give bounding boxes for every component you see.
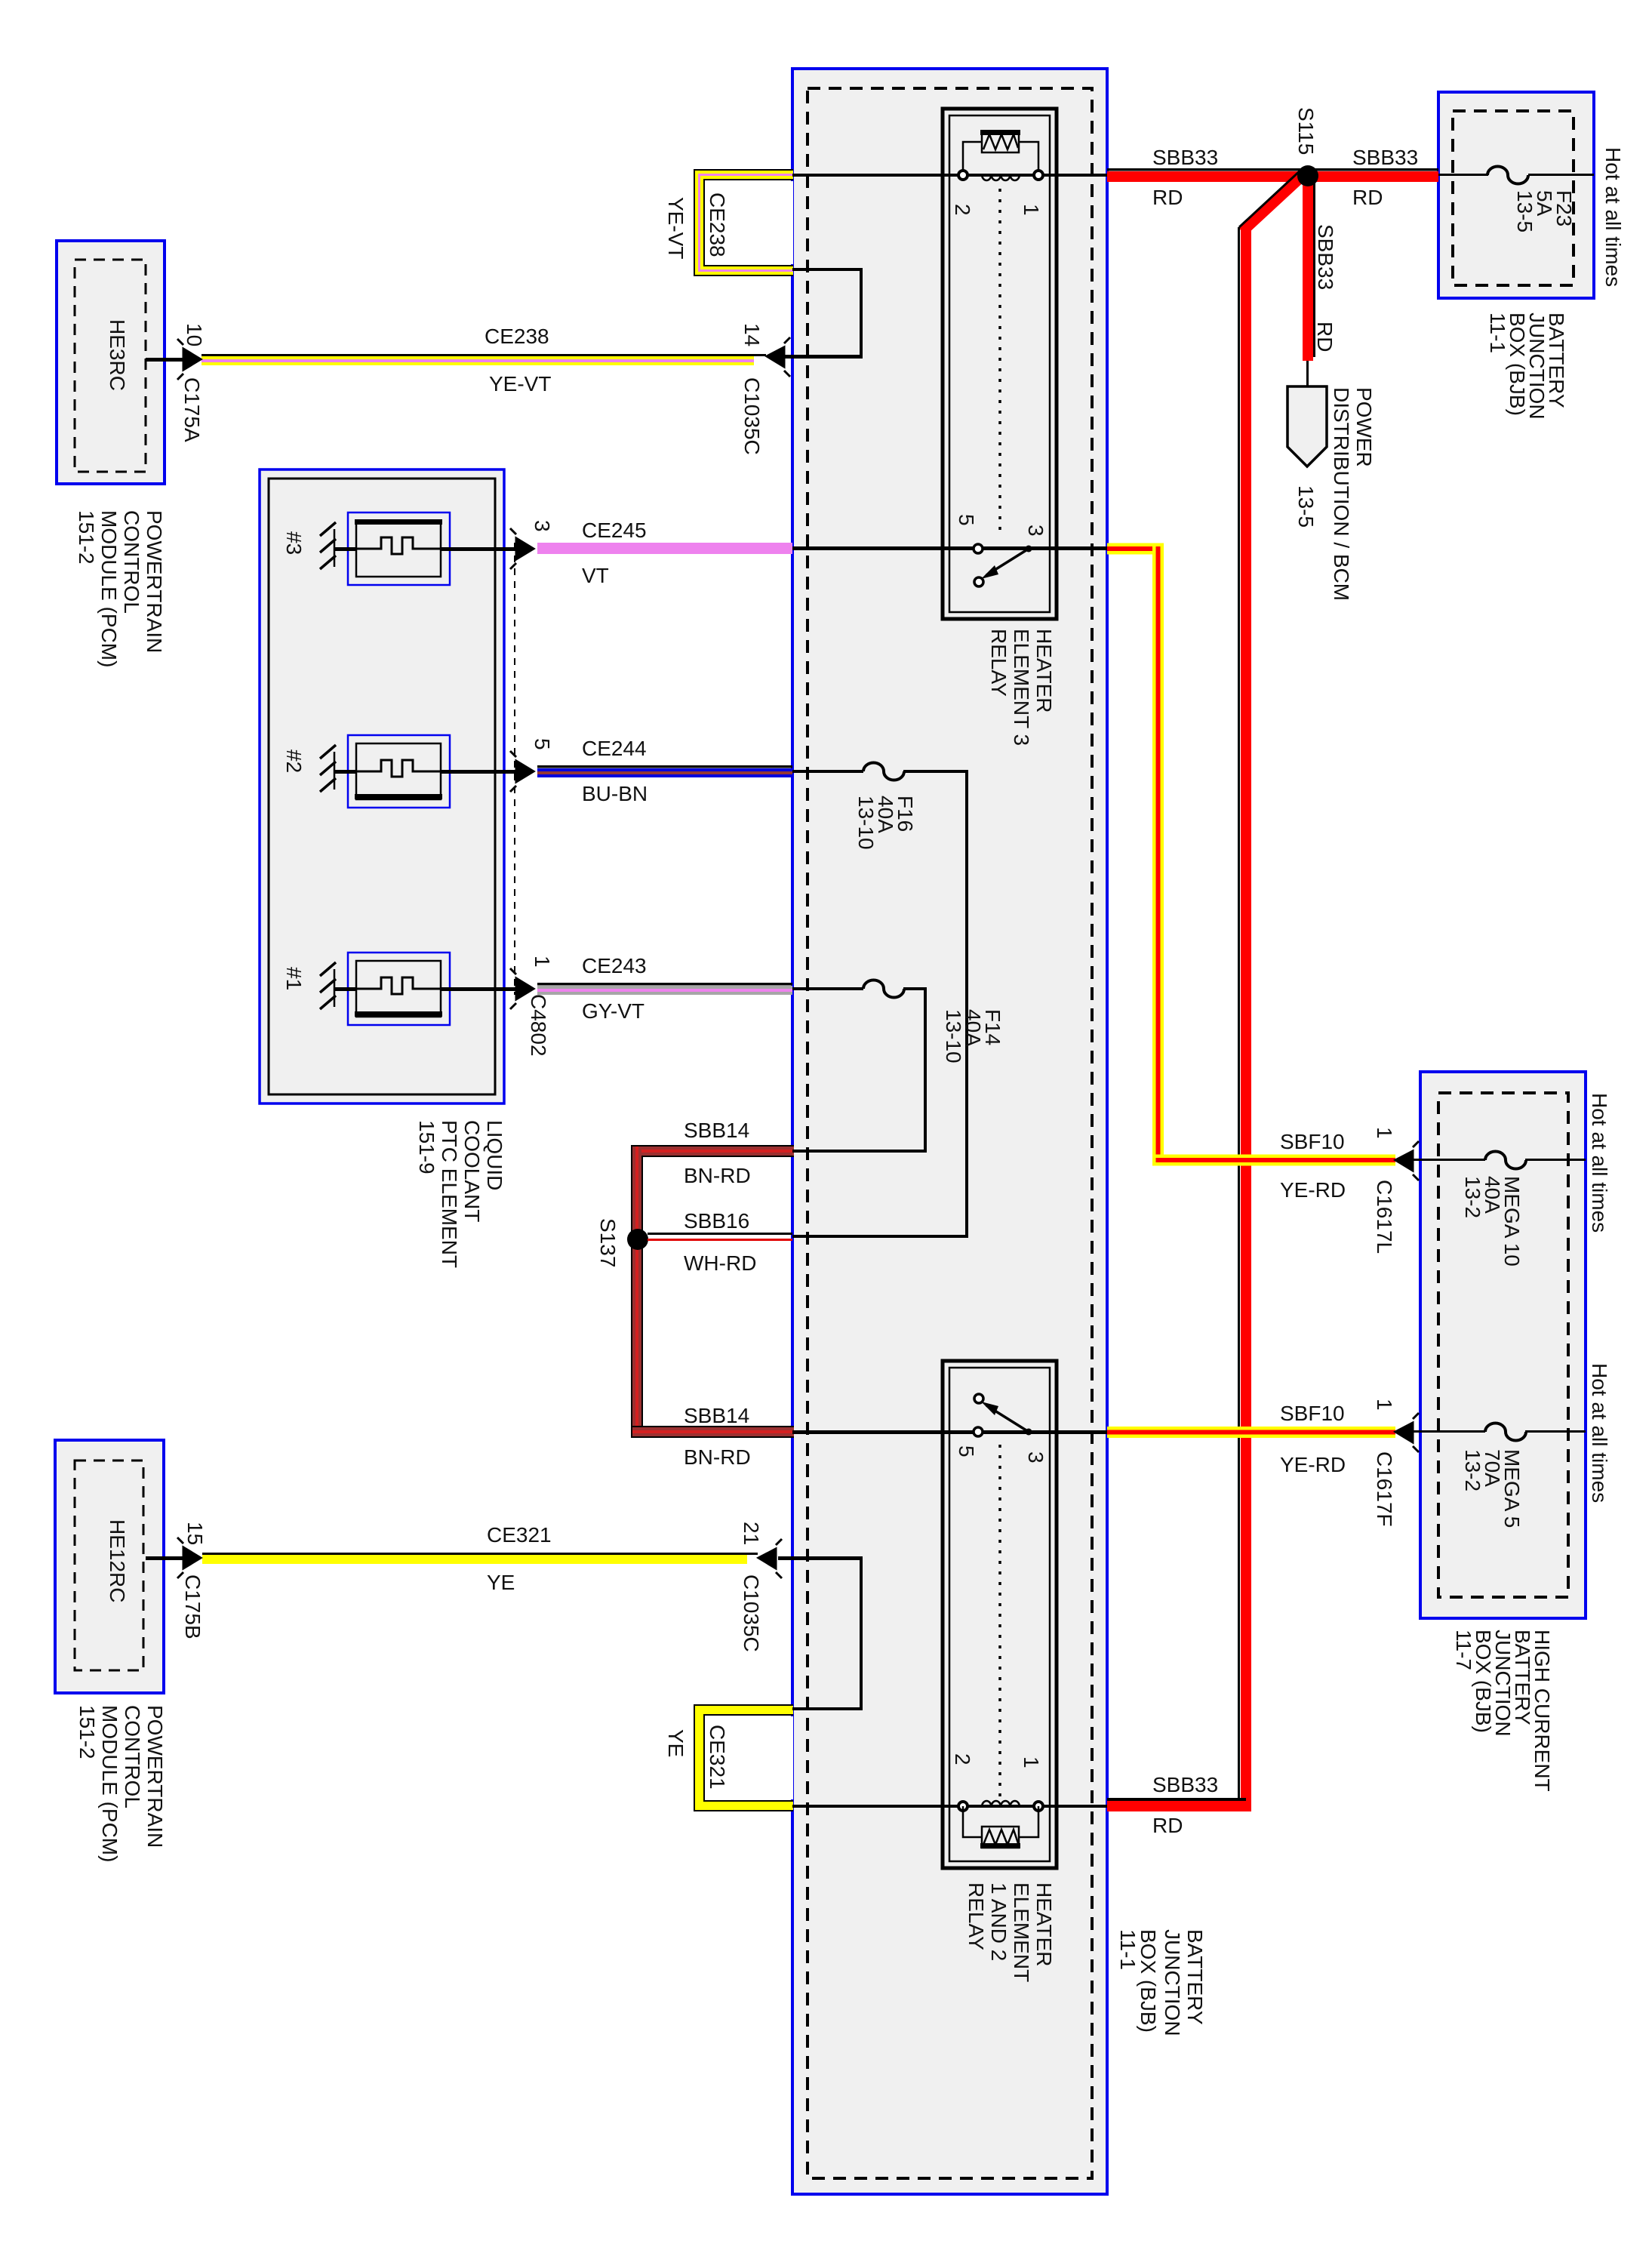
svg-text:1 AND 2: 1 AND 2 <box>987 1882 1011 1961</box>
wire CE238 YE-VT from C175A to C1035C <box>202 354 766 365</box>
svg-text:1: 1 <box>1373 1399 1396 1411</box>
svg-text:RD: RD <box>1152 186 1183 209</box>
connector arrow C1617F pin 1 (left pointing) <box>1395 1413 1419 1452</box>
svg-text:13-2: 13-2 <box>1461 1176 1484 1218</box>
svg-text:11-1: 11-1 <box>1116 1929 1140 1970</box>
fuse F16 40A symbol <box>863 763 904 780</box>
svg-text:CE238: CE238 <box>706 192 729 257</box>
label high current battery junction box BJB 11-7 <box>1452 1630 1554 1792</box>
svg-text:MODULE (PCM): MODULE (PCM) <box>98 1705 122 1862</box>
svg-text:13-5: 13-5 <box>1513 190 1537 232</box>
svg-text:SBB33: SBB33 <box>1352 146 1418 169</box>
svg-text:#3: #3 <box>282 531 306 555</box>
label powertrain control module PCM top <box>75 510 166 667</box>
svg-text:YE-VT: YE-VT <box>664 197 688 259</box>
svg-text:3: 3 <box>1024 1451 1047 1464</box>
svg-text:DISTRIBUTION / BCM: DISTRIBUTION / BCM <box>1330 387 1353 601</box>
wire SBB33 RD from S115 to F23 BJB <box>1308 168 1438 182</box>
wire CE245 VT from element 3 to relay <box>537 543 792 554</box>
svg-text:13-10: 13-10 <box>854 796 878 850</box>
wire SBB33 RD from BJB to S115 <box>1107 168 1308 182</box>
svg-text:PTC ELEMENT: PTC ELEMENT <box>438 1120 461 1268</box>
svg-text:YE: YE <box>487 1571 515 1594</box>
wire SBB33 RD from S115 down to power distribution <box>1303 182 1315 388</box>
label fuse F23 5A 13-5 <box>1513 190 1576 232</box>
battery junction box BJB main outline <box>792 69 1107 2194</box>
power distribution / BCM pentagon symbol <box>1287 386 1327 466</box>
svg-text:CE238: CE238 <box>485 325 549 348</box>
wire SBF10 YE-RD from relay 3 to C1617L <box>1107 543 1395 1166</box>
svg-text:SBF10: SBF10 <box>1280 1130 1345 1153</box>
wire CE238 loop outside BJB <box>694 170 793 275</box>
svg-text:C4802: C4802 <box>527 994 550 1057</box>
wire relay 1-2 coil line inside BJB (pins 2-1) <box>792 1805 1107 1808</box>
svg-text:BN-RD: BN-RD <box>684 1164 751 1187</box>
wire relay 3 switch line inside BJB (pins 5-3) <box>792 546 1107 550</box>
relay K3 coil inductor pins 2-1 <box>958 171 1043 180</box>
battery junction box F23 outline <box>1438 92 1594 298</box>
label fuse MEGA 10 40A 13-2 <box>1461 1176 1524 1267</box>
svg-text:2: 2 <box>951 1753 974 1765</box>
wire pin 14 C1035C path inside BJB <box>778 268 863 359</box>
svg-text:HEATER: HEATER <box>1032 629 1056 713</box>
svg-text:10: 10 <box>183 323 206 346</box>
svg-text:Hot at all times: Hot at all times <box>1588 1363 1611 1503</box>
fuse F23 5A symbol with feed line <box>1438 167 1594 184</box>
svg-text:15: 15 <box>183 1522 207 1545</box>
connector arrow C1035C pin 21 (left pointing) <box>758 1539 782 1578</box>
svg-text:151-9: 151-9 <box>415 1120 438 1174</box>
wire CE244 BU-BN from element 2 to F16 <box>537 765 792 777</box>
svg-text:1: 1 <box>531 956 554 968</box>
svg-text:5: 5 <box>955 1445 978 1457</box>
connector arrow element 2 pin 5 <box>510 751 534 792</box>
svg-text:Hot at all times: Hot at all times <box>1601 147 1625 287</box>
svg-text:ELEMENT: ELEMENT <box>1010 1882 1033 1982</box>
svg-text:RELAY: RELAY <box>964 1882 988 1950</box>
wire CE243 GY-VT from element 1 to F14 <box>537 983 792 995</box>
svg-text:POWER: POWER <box>1352 387 1376 467</box>
svg-text:3: 3 <box>1024 525 1047 537</box>
svg-text:SBB33: SBB33 <box>1314 224 1337 290</box>
svg-text:YE-RD: YE-RD <box>1280 1178 1346 1202</box>
junction S115 <box>1297 165 1318 186</box>
ground hatch element #1 <box>320 962 516 1009</box>
svg-text:BU-BN: BU-BN <box>582 782 648 805</box>
relay K1-2 coil resistor element <box>963 1806 1038 1848</box>
svg-text:1: 1 <box>1020 1756 1043 1768</box>
svg-text:S115: S115 <box>1294 107 1318 155</box>
relay K1-2 switch pins 5-3 <box>974 1394 1032 1436</box>
fuse MEGA 10 40A symbol with feed line <box>1411 1152 1586 1169</box>
svg-text:CE244: CE244 <box>582 737 647 760</box>
svg-text:11-7: 11-7 <box>1452 1630 1475 1670</box>
high current battery junction box outline <box>1420 1072 1586 1618</box>
svg-text:SBB14: SBB14 <box>684 1119 749 1142</box>
svg-text:C1035C: C1035C <box>740 377 764 455</box>
label fuse MEGA 5 70A 13-2 <box>1461 1449 1524 1528</box>
svg-text:ELEMENT 3: ELEMENT 3 <box>1010 629 1033 746</box>
svg-text:WH-RD: WH-RD <box>684 1251 756 1275</box>
svg-text:C175B: C175B <box>181 1574 205 1639</box>
svg-text:RD: RD <box>1352 186 1383 209</box>
svg-text:14: 14 <box>740 323 764 346</box>
svg-text:CONTROL: CONTROL <box>120 510 143 614</box>
svg-text:HE3RC: HE3RC <box>106 319 129 391</box>
label heater element 1 and 2 relay <box>964 1882 1056 1982</box>
svg-text:151-2: 151-2 <box>75 510 98 565</box>
wire SBF10 YE-RD from relay 1-2 to C1617F <box>1107 1427 1395 1438</box>
svg-text:YE-VT: YE-VT <box>489 372 551 396</box>
svg-text:YE: YE <box>664 1729 688 1757</box>
relay K3 coil resistor element <box>963 130 1038 171</box>
fuse MEGA 5 70A symbol with feed line <box>1411 1424 1586 1441</box>
fuse F14 40A symbol <box>863 980 904 998</box>
svg-text:#1: #1 <box>282 967 306 990</box>
heater element #2 cell <box>348 735 450 808</box>
svg-text:BN-RD: BN-RD <box>684 1445 751 1469</box>
svg-text:POWERTRAIN: POWERTRAIN <box>143 1705 167 1848</box>
svg-text:SBF10: SBF10 <box>1280 1402 1345 1425</box>
svg-text:Hot at all times: Hot at all times <box>1588 1093 1611 1233</box>
svg-text:21: 21 <box>740 1522 763 1545</box>
wire F16 feed and output to SBB16 <box>792 770 968 1238</box>
connector arrow element 1 pin 1 <box>510 968 534 1009</box>
svg-text:151-2: 151-2 <box>75 1705 99 1759</box>
svg-text:2: 2 <box>951 204 974 216</box>
ground hatch element #2 <box>320 745 516 792</box>
svg-text:C1617L: C1617L <box>1373 1180 1396 1254</box>
wire SBB14 BN-RD loop with S137 <box>631 1145 794 1438</box>
wire SBB16 WH-RD from S137 to BJB <box>648 1233 792 1241</box>
svg-text:CONTROL: CONTROL <box>121 1705 144 1808</box>
svg-text:13-5: 13-5 <box>1294 485 1318 528</box>
junction S137 <box>627 1229 648 1250</box>
svg-text:#2: #2 <box>282 749 306 773</box>
PCM HE12RC pin 15 output line and arrow C175B <box>146 1537 201 1578</box>
svg-text:HE12RC: HE12RC <box>106 1519 129 1602</box>
connector arrow C1617L pin 1 (left pointing) <box>1395 1141 1419 1180</box>
relay K1-2 coil inductor pins 2-1 <box>958 1801 1043 1811</box>
connector arrow element 3 pin 3 <box>510 528 534 569</box>
connector arrow C1035C pin 14 (left pointing) <box>767 337 790 377</box>
svg-text:SBB33: SBB33 <box>1152 1773 1218 1796</box>
svg-text:GY-VT: GY-VT <box>582 999 644 1023</box>
wire relay 1-2 switch line inside BJB (pins 5-3) <box>792 1430 1107 1434</box>
label battery junction box BJB 11-1 top right <box>1486 312 1568 420</box>
heater element #3 cell <box>348 512 450 585</box>
svg-text:SBB33: SBB33 <box>1152 146 1218 169</box>
svg-text:MODULE (PCM): MODULE (PCM) <box>97 510 121 667</box>
relay K3 armature dotted link <box>998 189 1001 536</box>
svg-text:13-2: 13-2 <box>1461 1449 1484 1491</box>
svg-text:RELAY: RELAY <box>987 629 1011 697</box>
PCM HE3RC box <box>57 241 165 484</box>
svg-text:CE321: CE321 <box>706 1725 729 1790</box>
label powertrain control module PCM bottom <box>75 1705 167 1862</box>
svg-text:SBB16: SBB16 <box>684 1209 749 1233</box>
label fuse F14 40A 13-10 <box>942 1009 1004 1063</box>
wire F14 feed and output to SBB14 <box>792 987 927 1153</box>
wire pin 21 C1035C path inside BJB <box>778 1556 863 1710</box>
svg-text:JUNCTION: JUNCTION <box>1161 1929 1184 2036</box>
svg-text:LIQUID: LIQUID <box>483 1120 506 1190</box>
svg-text:CE321: CE321 <box>487 1523 552 1547</box>
svg-text:VT: VT <box>582 564 609 587</box>
relay K3 switch pins 5-3 <box>974 544 1032 586</box>
svg-text:13-10: 13-10 <box>942 1009 965 1063</box>
svg-text:CE243: CE243 <box>582 954 647 977</box>
svg-text:CE245: CE245 <box>582 519 647 542</box>
svg-text:5: 5 <box>531 738 554 750</box>
svg-text:1: 1 <box>1020 204 1043 216</box>
wire CE321 loop outside BJB <box>694 1705 793 1811</box>
svg-text:5: 5 <box>955 514 978 526</box>
PCM HE3RC pin 10 output line and arrow C175A <box>146 339 201 380</box>
svg-text:3: 3 <box>531 520 554 532</box>
connector C4802 dashed line <box>514 543 515 995</box>
heater element #1 cell <box>348 953 450 1025</box>
svg-text:1: 1 <box>1373 1127 1396 1139</box>
label heater element 3 relay <box>987 629 1056 746</box>
liquid coolant PTC element box <box>260 469 504 1103</box>
svg-text:S137: S137 <box>596 1218 620 1267</box>
svg-text:C1617F: C1617F <box>1373 1451 1396 1527</box>
svg-text:C1035C: C1035C <box>740 1574 763 1652</box>
wire relay 3 coil feed line inside BJB (pins 2-1) <box>792 174 1107 177</box>
svg-text:COOLANT: COOLANT <box>460 1120 484 1222</box>
wire CE321 YE from C175B to C1035C <box>202 1553 758 1564</box>
svg-text:YE-RD: YE-RD <box>1280 1453 1346 1476</box>
svg-text:POWERTRAIN: POWERTRAIN <box>143 510 166 653</box>
PCM HE12RC box <box>55 1440 164 1693</box>
svg-text:11-1: 11-1 <box>1486 312 1509 353</box>
ground hatch element #3 <box>320 522 516 569</box>
relay K1-2 armature dotted link <box>998 1445 1001 1796</box>
svg-text:HEATER: HEATER <box>1032 1882 1056 1967</box>
svg-text:RD: RD <box>1152 1814 1183 1837</box>
svg-text:C175A: C175A <box>180 377 204 442</box>
wire SBB33 RD long run from S115 to heater element 1-2 relay coil <box>1107 169 1303 1811</box>
label power distribution / BCM <box>1294 387 1376 601</box>
svg-text:SBB14: SBB14 <box>684 1404 749 1427</box>
label fuse F16 40A 13-10 <box>854 796 917 850</box>
label battery junction box BJB 11-1 bottom <box>1116 1929 1207 2036</box>
label liquid coolant PTC element <box>415 1120 506 1268</box>
svg-text:BATTERY: BATTERY <box>1183 1929 1207 2025</box>
relay K1-2 heater element 1 and 2 relay box <box>943 1361 1057 1868</box>
relay K3 heater element 3 relay box <box>943 109 1057 619</box>
svg-text:RD: RD <box>1313 322 1337 352</box>
